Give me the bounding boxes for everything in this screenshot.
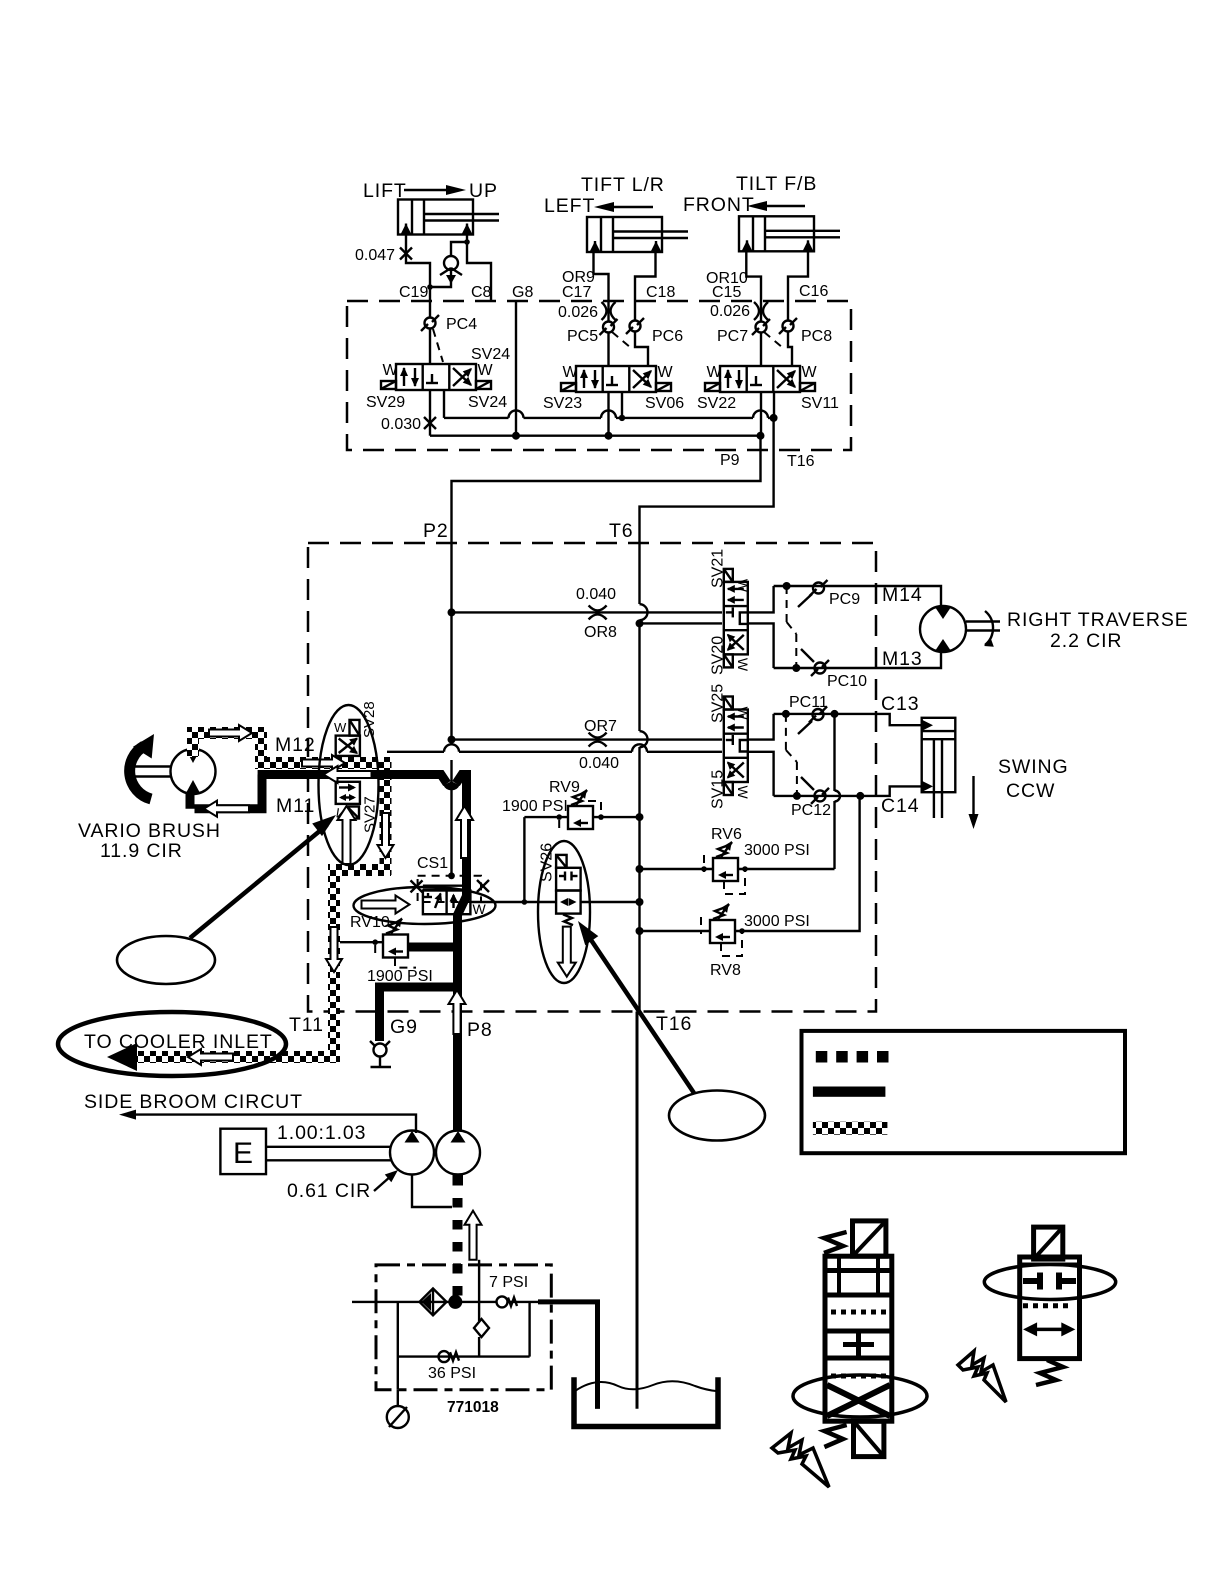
svg-text:W: W — [334, 720, 347, 735]
callout arrow 2 — [585, 931, 694, 1093]
svg-text:W: W — [478, 362, 494, 379]
svg-text:LEFT: LEFT — [544, 195, 595, 217]
junction suction/filter — [448, 1295, 462, 1309]
RV8 pilot dashes — [701, 917, 742, 956]
svg-text:W: W — [735, 579, 751, 593]
small valve spring — [1036, 1360, 1063, 1385]
orifice OR7 — [589, 733, 607, 747]
wire C8 cylinder right port — [467, 234, 491, 302]
svg-text:TO COOLER INLET: TO COOLER INLET — [84, 1031, 273, 1053]
wire RV6 output riser to C13 — [738, 714, 835, 869]
svg-text:E: E — [233, 1137, 253, 1170]
wire C18 right port — [635, 251, 656, 321]
wire P rail (pressure gallery) — [430, 435, 761, 437]
leader 0.61 CIR — [374, 1176, 391, 1191]
svg-text:SV29: SV29 — [366, 394, 405, 411]
wire SV25 work ports — [748, 714, 774, 796]
wire RV10 input — [339, 941, 383, 943]
wire C16 right port — [788, 250, 808, 321]
wire CS1 to SV26 to T6 — [471, 901, 556, 903]
swing cylinder (vertical) — [921, 718, 955, 818]
breather/drain — [387, 1390, 409, 1428]
orifice 0.047 — [400, 248, 412, 260]
check valve bypass (diamond) — [474, 1319, 489, 1337]
wire P2 vertical — [450, 543, 452, 745]
svg-text:1.00:1.03: 1.00:1.03 — [277, 1122, 366, 1144]
wire RV10 output (thick) — [408, 943, 459, 952]
pilot network PC11/PC12 (dashed) — [786, 714, 797, 796]
svg-text:771018: 771018 — [447, 1399, 499, 1416]
manifold 2 enclosure (dashed) — [308, 543, 876, 1012]
legend pressure line sample — [813, 1087, 886, 1097]
tank — [574, 1377, 718, 1426]
svg-text:2.2 CIR: 2.2 CIR — [1050, 630, 1122, 652]
legend case drain sample — [813, 1122, 888, 1135]
svg-text:TIFT L/R: TIFT L/R — [581, 174, 665, 196]
wire PC6 to valve — [635, 332, 648, 367]
svg-text:0.040: 0.040 — [576, 586, 616, 603]
pilot check PC6 — [626, 318, 644, 334]
svg-text:W: W — [383, 362, 399, 379]
arrow swing direction — [969, 776, 979, 829]
legend pilot line sample — [816, 1051, 889, 1063]
svg-text:11.9 CIR: 11.9 CIR — [100, 840, 183, 862]
svg-text:3000 PSI: 3000 PSI — [744, 913, 810, 930]
pilot line PC4 (dashed) — [433, 329, 443, 362]
case drain jog (checkered) — [328, 864, 391, 876]
svg-text:PC10: PC10 — [827, 673, 867, 690]
wire valve2 T tap — [621, 392, 623, 418]
pilot check PC10 — [811, 660, 829, 676]
wire valve1 T tap — [443, 390, 445, 418]
callout arrow 1 — [190, 825, 327, 938]
gauge branch G9 (thick) — [380, 983, 463, 1042]
svg-text:W: W — [802, 364, 818, 381]
svg-text:P9: P9 — [720, 452, 740, 469]
svg-text:M14: M14 — [882, 584, 923, 606]
svg-text:SV15: SV15 — [710, 770, 727, 809]
brush motor M11/M12 — [133, 749, 216, 794]
pilot check PC5 — [600, 319, 618, 335]
callout ellipse 2 (empty) — [669, 1091, 765, 1141]
wire T rail (tank gallery) — [444, 417, 774, 419]
suction line (square dashes) — [453, 1176, 463, 1302]
annotation arrow (hollow up) suction — [465, 1211, 482, 1260]
wire 36psi line — [398, 1355, 530, 1357]
svg-text:C15: C15 — [712, 284, 741, 301]
case drain to cooler (checkered) — [130, 1051, 340, 1063]
svg-text:SV24: SV24 — [471, 346, 510, 363]
solenoid valve SV26 — [556, 855, 581, 925]
svg-text:SWING: SWING — [998, 756, 1069, 778]
wire filter main line — [352, 1301, 497, 1303]
svg-text:0.026: 0.026 — [710, 303, 750, 320]
pressure line drop to CS1 (thick) — [458, 770, 467, 947]
svg-text:RV8: RV8 — [710, 962, 741, 979]
wire RV9 input — [524, 816, 568, 818]
svg-text:C16: C16 — [799, 283, 828, 300]
gauge point G9 — [370, 1041, 391, 1067]
svg-text:W: W — [735, 658, 751, 672]
check valve 36 PSI — [439, 1351, 460, 1362]
wire PC8 to valve — [788, 332, 792, 367]
wire C14 line — [774, 786, 922, 796]
svg-text:PC9: PC9 — [829, 591, 860, 608]
wire RV9 tap riser — [523, 817, 525, 902]
solenoid valve SV27 (lower section) — [333, 782, 360, 824]
pressure line main run (thick) — [258, 775, 467, 784]
arrow LIFT to UP — [404, 185, 466, 195]
wire RV8 branch — [640, 930, 711, 932]
relief valve RV8 — [710, 903, 735, 943]
pump2 suction stub — [453, 1175, 464, 1186]
pilot check PC4 — [421, 315, 439, 331]
relief valve RV10 — [383, 918, 408, 958]
svg-text:T6: T6 — [609, 520, 634, 542]
wire C19 cylinder left port — [406, 234, 430, 318]
svg-text:W: W — [658, 364, 674, 381]
lightning bolt B — [958, 1351, 1006, 1402]
cylinder tilt-fb cylinder — [739, 216, 840, 252]
svg-text:C17: C17 — [562, 284, 591, 301]
svg-text:OR7: OR7 — [584, 718, 617, 735]
check valve 7 PSI — [497, 1296, 518, 1307]
wire 7psi to tank (thick) — [508, 1301, 541, 1303]
wire C15 left port — [746, 250, 761, 322]
svg-text:SIDE BROOM CIRCUT: SIDE BROOM CIRCUT — [84, 1091, 303, 1113]
orifice OR8 — [589, 605, 607, 619]
svg-text:SV25: SV25 — [710, 684, 727, 723]
annotation arrow (hollow, right) inside CS1 ellipse — [362, 896, 410, 914]
solenoid valve SV29/SV24 — [381, 362, 494, 390]
svg-text:CCW: CCW — [1006, 780, 1055, 802]
pilot check PC8 — [779, 318, 797, 334]
wire G8 gauge line — [515, 302, 517, 436]
svg-text:SV20: SV20 — [710, 636, 727, 675]
svg-text:36 PSI: 36 PSI — [428, 1365, 476, 1382]
svg-text:SV21: SV21 — [710, 549, 727, 588]
svg-text:SV24: SV24 — [468, 394, 507, 411]
manifold enclosure (dashed) — [347, 301, 851, 450]
RV6 pilot dashes — [704, 855, 745, 894]
callout ellipse 1 (empty) — [117, 936, 215, 984]
orifice 0.026 left — [602, 302, 616, 320]
wire C17 left port — [594, 251, 609, 322]
svg-text:P2: P2 — [423, 520, 449, 542]
wire M14 line — [774, 586, 941, 606]
svg-text:SV11: SV11 — [801, 395, 839, 412]
callout ellipse SV26 — [538, 841, 590, 983]
pilot check PC12 — [811, 788, 829, 804]
svg-text:C14: C14 — [881, 795, 919, 817]
svg-text:FRONT: FRONT — [683, 194, 755, 216]
annotation arrow (hollow up) below SV27 — [338, 806, 356, 864]
wire C13 line — [774, 714, 922, 725]
filter (diamond) — [420, 1289, 447, 1316]
pilot check PC11 — [809, 707, 827, 723]
pilot network PC9/PC10 (dashed) — [787, 586, 797, 668]
svg-text:1900 PSI: 1900 PSI — [367, 968, 433, 985]
svg-text:RIGHT TRAVERSE: RIGHT TRAVERSE — [1007, 609, 1189, 631]
wire 36psi risers — [397, 1302, 399, 1390]
tank dip tube (drain) — [595, 1377, 600, 1409]
svg-text:PC7: PC7 — [717, 328, 748, 345]
filter unit box (dash-dot) — [376, 1265, 551, 1390]
svg-text:PC6: PC6 — [652, 328, 683, 345]
svg-text:PC11: PC11 — [789, 694, 828, 711]
pump 1 (side broom) — [390, 1131, 434, 1175]
RV9 pilot dashes — [559, 801, 601, 834]
svg-text:PC4: PC4 — [446, 316, 477, 333]
rotation arrow (curved, bold) — [130, 746, 151, 799]
pressure line P8 down to pump (thick) — [453, 940, 462, 1131]
wire valve2 P tap — [607, 392, 609, 436]
wire check valve branch — [430, 242, 467, 287]
svg-text:0.047: 0.047 — [355, 247, 395, 264]
pump 2 (main) — [436, 1131, 480, 1175]
pilot check PC9 — [810, 580, 828, 596]
svg-text:OR8: OR8 — [584, 624, 617, 641]
RV10 pilot dashes — [375, 945, 416, 968]
svg-text:SV23: SV23 — [543, 395, 582, 412]
check valve (lift lock) — [440, 256, 462, 284]
orifice 0.030 — [424, 417, 436, 429]
solenoid valve SV21/SV20 — [724, 569, 751, 672]
svg-text:P8: P8 — [467, 1019, 493, 1041]
svg-text:3000 PSI: 3000 PSI — [744, 842, 810, 859]
cylinder lift cylinder — [398, 200, 499, 236]
svg-text:G9: G9 — [390, 1016, 418, 1038]
svg-text:W: W — [735, 707, 751, 721]
wire RV8 output riser to C14 — [735, 796, 860, 931]
solenoid valve SV28 (upper section) — [334, 720, 360, 756]
big valve symbol body — [825, 1256, 892, 1421]
svg-text:PC8: PC8 — [801, 328, 832, 345]
solenoid valve SV23/SV06 — [561, 364, 674, 392]
wire SV21 work ports to pilot checks — [748, 586, 774, 668]
pilot line PC7-PC8 (dashed) — [764, 332, 783, 348]
wire RV9 output — [593, 816, 640, 818]
solenoid valve SV22/SV11 — [705, 364, 818, 392]
pilot line PC5-PC6 (dashed) — [612, 332, 631, 348]
case drain loop (checkered) motor top — [187, 727, 199, 757]
wire OR7 line — [452, 738, 723, 740]
svg-text:0.026: 0.026 — [558, 304, 598, 321]
svg-text:W: W — [563, 364, 579, 381]
solenoid valve SV25/SV15 — [724, 697, 751, 800]
pressure line motor bottom loop (thick) — [190, 775, 262, 814]
wire T6 return to tank — [636, 1012, 639, 1409]
small valve symbol body — [1020, 1257, 1080, 1359]
svg-text:T16: T16 — [656, 1013, 692, 1035]
cylinder tilt-lr cylinder — [587, 217, 688, 253]
svg-text:VARIO BRUSH: VARIO BRUSH — [78, 820, 221, 842]
svg-text:T16: T16 — [787, 453, 815, 470]
wire pump1 drain — [412, 1175, 452, 1208]
big valve bottom solenoid — [854, 1421, 884, 1456]
traverse motor — [920, 606, 1000, 652]
svg-text:0.040: 0.040 — [579, 755, 619, 772]
wire T6 vertical — [638, 543, 640, 1012]
svg-text:0.61 CIR: 0.61 CIR — [287, 1180, 371, 1202]
big valve top spring — [824, 1232, 847, 1253]
svg-text:C19: C19 — [399, 284, 428, 301]
svg-text:G8: G8 — [512, 284, 533, 301]
wire SV28 to SV25 line — [387, 751, 722, 753]
svg-text:T11: T11 — [289, 1014, 324, 1036]
svg-text:M13: M13 — [882, 648, 923, 670]
callout ellipse TO COOLER INLET — [58, 1012, 286, 1076]
wire OR8 line — [452, 611, 723, 613]
wire M13 line — [774, 652, 941, 668]
wire E to pump — [266, 1146, 391, 1148]
svg-text:SV06: SV06 — [645, 395, 684, 412]
svg-text:C8: C8 — [471, 284, 492, 301]
svg-text:C18: C18 — [646, 284, 675, 301]
svg-text:PC12: PC12 — [791, 802, 831, 819]
callout ellipse SV28/SV27 — [319, 705, 379, 865]
small valve solenoid — [1034, 1227, 1063, 1259]
svg-text:RV9: RV9 — [549, 779, 580, 796]
svg-text:7 PSI: 7 PSI — [489, 1274, 528, 1291]
svg-text:W: W — [707, 364, 723, 381]
wire PC5 to valve — [607, 332, 609, 366]
callout ellipse CS1 — [354, 887, 496, 924]
lightning bolt A — [772, 1433, 829, 1487]
wire SV21 lower port line — [640, 622, 723, 624]
gearbox E — [220, 1129, 266, 1174]
pilot check PC7 — [752, 319, 770, 335]
legend box — [802, 1031, 1126, 1153]
flow control CS1 — [418, 876, 481, 914]
svg-text:PC5: PC5 — [567, 328, 598, 345]
svg-text:1900 PSI: 1900 PSI — [502, 798, 568, 815]
svg-text:RV10: RV10 — [350, 914, 390, 931]
callout ellipse small valve — [984, 1265, 1115, 1300]
big valve top solenoid — [853, 1221, 886, 1256]
orifice 0.026 right — [754, 302, 768, 320]
svg-text:M11: M11 — [276, 795, 315, 817]
wire valve1 P tap — [429, 390, 431, 436]
wire PC4 to valve — [429, 329, 431, 364]
wire RV6 branch — [640, 868, 714, 870]
case drain down leg (checkered) — [380, 757, 392, 875]
arrow side broom line — [135, 1115, 416, 1133]
relief valve RV6 — [713, 841, 738, 881]
wire valve3 T tap / T16 drop — [640, 392, 775, 543]
arrow LEFT — [594, 202, 653, 212]
case drain main run (checkered) — [255, 757, 391, 769]
annotation arrow (hollow, down) inside ellipse — [558, 927, 576, 977]
wire valve3 P tap / P9 — [452, 392, 762, 543]
callout ellipse big valve — [793, 1375, 927, 1417]
svg-text:SV22: SV22 — [697, 395, 736, 412]
svg-text:CS1: CS1 — [417, 855, 448, 872]
wire PC7 to valve — [760, 332, 762, 366]
svg-text:0.030: 0.030 — [381, 416, 421, 433]
svg-text:C13: C13 — [881, 693, 919, 715]
svg-text:SV28: SV28 — [361, 701, 378, 738]
arrow FRONT — [747, 201, 805, 211]
relief valve RV9 — [568, 789, 593, 829]
svg-text:M12: M12 — [275, 734, 316, 756]
svg-text:W: W — [735, 786, 751, 800]
svg-text:TILT F/B: TILT F/B — [736, 173, 817, 195]
big valve bottom spring — [824, 1425, 846, 1447]
svg-text:RV6: RV6 — [711, 826, 742, 843]
